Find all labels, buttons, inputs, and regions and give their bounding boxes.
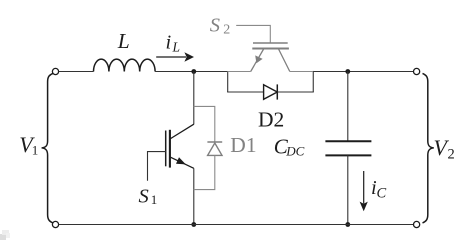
terminal bottom-right [414,221,420,227]
transistor S2 (IGBT, gray) [236,25,290,71]
current arrow iL [156,52,194,61]
node A (top junction) [191,69,196,74]
terminal top-right [414,68,420,74]
svg-text:DC: DC [285,144,304,159]
wire S2 emitter stub (gray, left) [228,71,251,73]
svg-text:1: 1 [32,143,39,158]
inductor L [94,59,156,71]
label S1 [139,186,158,208]
wire capacitor top lead [347,72,349,142]
wire node A to D2 branch corner [227,72,229,92]
wire D2 cathode lead [277,91,314,93]
wire bottom rail [59,224,414,226]
node D (S1 emitter bottom junction) [191,222,196,227]
svg-text:2: 2 [223,22,230,37]
svg-text:L: L [172,40,181,55]
diode D2 [264,84,278,99]
wire S1 emitter down to bottom rail [193,168,195,224]
svg-text:L: L [117,29,130,53]
label V2 [434,135,455,163]
diode D1 (gray, antiparallel with S1) [194,106,222,189]
label S2 (gray) [210,14,230,37]
wire D2 anode lead [227,91,263,93]
transistor S1 (IGBT) [148,124,194,181]
label V1 [19,132,38,158]
voltage source V1 brace [42,73,53,223]
label iC [371,177,387,202]
svg-text:i: i [166,32,172,54]
svg-text:C: C [377,186,387,202]
svg-text:D1: D1 [230,133,256,157]
corner smudge (faint artifact bottom-left) [0,230,10,240]
terminal bottom-left [52,221,58,227]
svg-text:1: 1 [151,192,158,207]
wire top rail right (D2 riser to terminal) [313,71,413,73]
node C (capacitor bottom junction) [345,222,350,227]
label iL [166,32,181,55]
wire D2 riser to top rail [312,71,314,92]
node B (capacitor top junction) [345,69,350,74]
terminal top-left [52,68,58,74]
label CDC [274,134,305,158]
wire top-left (terminal to inductor) [59,71,94,73]
svg-text:2: 2 [448,147,455,163]
svg-text:D2: D2 [258,107,284,131]
wire S2 collector stub (gray, right) [290,71,313,73]
wire capacitor bottom lead [347,155,349,224]
voltage source V2 brace [423,73,434,223]
wire inductor to node A [155,71,228,73]
svg-text:S: S [210,14,220,36]
current arrow iC [360,171,368,211]
capacitor CDC [325,141,371,155]
wire node A down to S1 collector [193,72,195,125]
svg-text:S: S [139,186,149,208]
